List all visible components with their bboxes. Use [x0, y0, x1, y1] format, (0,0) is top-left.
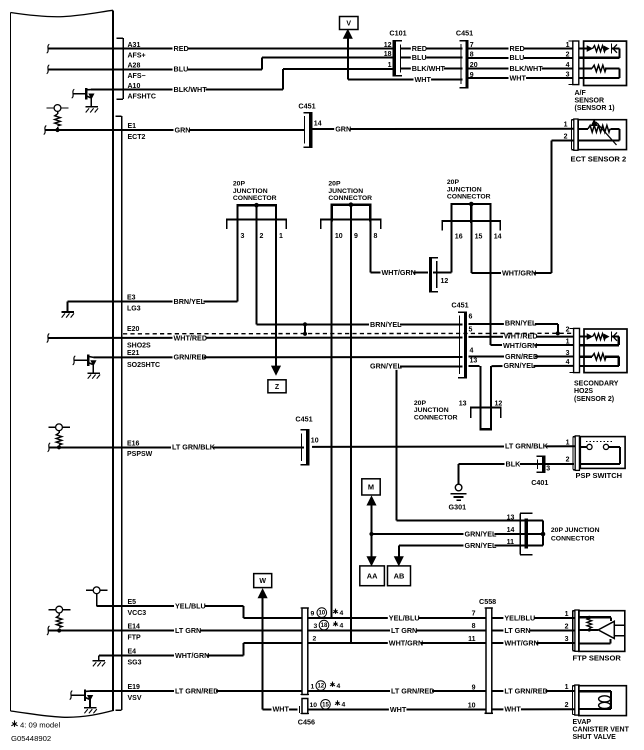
svg-text:10: 10 [318, 611, 325, 617]
wire label BLK/WHT (after C451) [509, 66, 542, 72]
wire label GRN/YEL (to C451 pin 13) [369, 364, 400, 370]
pin E14 label [128, 624, 142, 642]
page connector V box with up arrow [340, 17, 359, 39]
svg-text:BLU: BLU [174, 65, 189, 74]
svg-text:3: 3 [314, 623, 318, 630]
ECM connector A pin-group bracket [117, 38, 124, 99]
ECT sensor 2 connector bracket [571, 120, 573, 150]
svg-text:WHT: WHT [415, 75, 432, 84]
svg-text:V: V [346, 21, 351, 28]
svg-text:YEL/BLU: YEL/BLU [504, 613, 535, 622]
svg-text:1: 1 [279, 233, 283, 240]
wire label YEL/BLU (middle) [388, 616, 419, 622]
svg-text:WHT/GRN: WHT/GRN [382, 268, 416, 277]
FTP sensor body [579, 611, 625, 652]
svg-text:1: 1 [566, 339, 570, 346]
svg-text:SHUT VALVE: SHUT VALVE [573, 734, 617, 741]
svg-text:12: 12 [317, 684, 324, 690]
svg-text:20P: 20P [414, 400, 427, 407]
svg-text:12: 12 [495, 400, 503, 407]
shielding (dashed) of WHT/RED SHO2S wire [123, 332, 573, 335]
svg-text:FTP: FTP [128, 634, 142, 641]
svg-text:18: 18 [321, 623, 328, 629]
wire label WHT/RED (ECM side) [173, 336, 206, 342]
ground at AFSHTC transistor emitter [85, 107, 98, 113]
ground at VSV transistor emitter [84, 707, 97, 709]
svg-text:JUNCTION: JUNCTION [328, 188, 363, 195]
svg-text:14: 14 [494, 233, 502, 240]
svg-text:13: 13 [459, 400, 467, 407]
pin E1 label [128, 123, 146, 141]
wire label WHT (middle) [389, 707, 407, 713]
20P junction connector (BRN/YEL group) [227, 181, 287, 241]
svg-text:M: M [368, 483, 374, 492]
wire label LT GRN/BLK (switch side) [504, 444, 546, 450]
svg-text:GRN: GRN [175, 125, 191, 134]
EVAP canister vent shut valve body with solenoid [579, 686, 627, 716]
svg-text:A31: A31 [128, 42, 141, 49]
wire label WHT/GRN (ECT sensor 2 ground) [501, 271, 534, 277]
wire label GRN/YEL (pin 11) [464, 544, 495, 550]
wire GRN E1 to ECT sensor 2 pin 1 [44, 126, 575, 135]
node dot shield to BRN/YEL link top [303, 322, 307, 326]
svg-text:G05448902: G05448902 [11, 734, 51, 743]
wire BRN/YEL C451 pin 6 to shield node [469, 324, 558, 334]
svg-text:A28: A28 [128, 63, 141, 70]
A/F sensor (sensor 1) body [579, 41, 627, 85]
svg-text:GRN: GRN [335, 124, 351, 133]
svg-text:C456: C456 [298, 718, 315, 727]
svg-text:LT GRN/RED: LT GRN/RED [175, 686, 218, 695]
svg-text:3: 3 [546, 466, 550, 473]
svg-text:1: 1 [388, 62, 392, 69]
svg-text:JUNCTION: JUNCTION [447, 186, 482, 193]
svg-text:FTP SENSOR: FTP SENSOR [573, 654, 622, 663]
svg-text:1: 1 [565, 611, 569, 618]
svg-text:10: 10 [468, 702, 476, 709]
svg-text:4: 4 [340, 622, 344, 629]
wire WHT/GRN junction connector pin 14 to secondary HO2S pin 1 [491, 223, 575, 346]
wire label WHT/RED (sensor side) [503, 334, 536, 340]
wire label LT GRN (middle) [390, 628, 416, 634]
pin A31 label [128, 42, 146, 60]
wire LT GRN/RED E19 to EVAP valve pin 1 [90, 690, 576, 692]
svg-text:3: 3 [565, 636, 569, 643]
EVAP canister vent shut valve connector bracket [572, 686, 574, 715]
pin E16 label [127, 440, 153, 458]
svg-text:LG3: LG3 [127, 305, 141, 312]
svg-text:CANISTER VENT: CANISTER VENT [573, 727, 630, 734]
ECM connector E pin-group bracket [116, 116, 122, 710]
svg-text:20P: 20P [328, 181, 341, 188]
svg-text:AB: AB [394, 571, 405, 580]
svg-text:A10: A10 [128, 83, 141, 90]
svg-text:C558: C558 [479, 597, 496, 606]
wire label GRN (after C451) [334, 127, 349, 133]
wire label WHT/GRN (sensor side) [503, 641, 536, 647]
svg-text:4: 4 [566, 359, 570, 366]
svg-text:ECT SENSOR 2: ECT SENSOR 2 [571, 155, 627, 164]
wire label WHT/GRN (ECM side) [174, 653, 207, 659]
wire label RED (ECM side) [173, 47, 188, 53]
svg-text:BLK/WHT: BLK/WHT [174, 85, 208, 94]
svg-text:7: 7 [470, 42, 474, 49]
svg-text:(SENSOR 2): (SENSOR 2) [574, 396, 614, 403]
wire GRN/YEL lower junction connector pin 12 to secondary HO2S pin 4 [491, 366, 574, 407]
svg-text:LT GRN: LT GRN [391, 626, 417, 635]
SECONDARY HO2S label [574, 380, 619, 403]
svg-text:VCC3: VCC3 [128, 610, 147, 617]
svg-text:2: 2 [565, 702, 569, 709]
svg-text:10: 10 [310, 702, 318, 709]
wire WHT/GRN E4 to FTP sensor pin 3 [99, 643, 576, 656]
svg-text:AFS+: AFS+ [128, 53, 146, 60]
svg-text:SENSOR: SENSOR [575, 98, 605, 105]
svg-text:A/F: A/F [575, 90, 587, 97]
svg-text:6: 6 [469, 313, 473, 320]
C456 pin 3(18) label [314, 620, 344, 630]
wire label BLU (after C101) [411, 56, 426, 62]
svg-text:SECONDARY: SECONDARY [574, 380, 619, 387]
connector C101 [384, 29, 407, 76]
20P junction connector (GRN/YEL pins 13/12, inverted) [414, 400, 502, 430]
svg-text:SG3: SG3 [128, 659, 142, 666]
wire junction connector pin 1 to page connector Z [272, 205, 281, 374]
PSP switch pin numbers [566, 439, 570, 463]
svg-text:11: 11 [507, 539, 515, 546]
svg-text:VSV: VSV [128, 695, 142, 702]
A/F sensor label [575, 90, 615, 112]
svg-text:LT GRN: LT GRN [504, 626, 530, 635]
page connector Z box [268, 380, 286, 393]
svg-text:WHT: WHT [510, 74, 527, 83]
wire label BRN/YEL (ECM side) [173, 299, 204, 305]
secondary HO2S body [580, 329, 628, 373]
svg-text:G301: G301 [449, 503, 467, 512]
svg-text:EVAP: EVAP [573, 719, 592, 726]
svg-text:GRN/RED: GRN/RED [174, 353, 207, 362]
svg-text:ECT2: ECT2 [128, 134, 146, 141]
svg-text:WHT/GRN: WHT/GRN [389, 638, 423, 647]
transistor SO2SHTC driver inside ECM [73, 355, 96, 373]
FTP sensor pin numbers [565, 611, 569, 643]
svg-text:20: 20 [470, 62, 478, 69]
svg-text:LT GRN: LT GRN [175, 626, 201, 635]
svg-text:AA: AA [367, 571, 378, 580]
svg-text:PSP SWITCH: PSP SWITCH [576, 471, 623, 480]
svg-text:4: 4 [566, 62, 570, 69]
pin A10 label [128, 83, 156, 101]
svg-text:E3: E3 [127, 295, 136, 302]
wire label LT GRN (ECM side) [174, 628, 200, 634]
ECM/PCM module box (torn edges) [11, 10, 115, 717]
wire BLK/WHT A10 to A/F sensor pin 4 [91, 68, 574, 89]
wire junction pin 9 tap to WHT/GRN [350, 221, 352, 643]
svg-text:E19: E19 [128, 684, 141, 691]
svg-text:JUNCTION: JUNCTION [233, 188, 268, 195]
svg-text:AFSHTC: AFSHTC [128, 94, 156, 101]
svg-text:1: 1 [566, 439, 570, 446]
svg-text:20P: 20P [447, 179, 460, 186]
A/F sensor (sensor 1) connector bar [569, 41, 579, 85]
svg-text:YEL/BLU: YEL/BLU [175, 601, 206, 610]
wire GRN/YEL node to junction connector pin 14 [372, 533, 525, 535]
pin E19 label [128, 684, 142, 702]
ground at E3/LG3 inside ECM [61, 302, 74, 318]
wire label GRN/RED (sensor side) [504, 355, 535, 361]
svg-text:BLK/WHT: BLK/WHT [412, 64, 446, 73]
svg-text:20P JUNCTION: 20P JUNCTION [551, 527, 600, 534]
ground at SO2SHTC transistor emitter [87, 372, 100, 374]
wire label YEL/BLU (ECM side) [174, 604, 205, 610]
svg-text:(SENSOR 1): (SENSOR 1) [575, 105, 615, 112]
svg-text:GRN/YEL: GRN/YEL [465, 529, 498, 538]
wire label RED (after C101) [411, 47, 426, 53]
svg-text:14: 14 [314, 120, 322, 127]
wire label LT GRN/RED (ECM side) [174, 689, 216, 695]
svg-text:8: 8 [374, 233, 378, 240]
svg-text:E14: E14 [128, 624, 141, 631]
svg-text:LT GRN/RED: LT GRN/RED [391, 686, 434, 695]
svg-text:E1: E1 [128, 123, 137, 130]
internal pull-up for FTP inside ECM [49, 606, 71, 630]
svg-text:C451: C451 [451, 301, 468, 310]
svg-text:WHT: WHT [504, 705, 521, 714]
wire label WHT (after V) [414, 77, 432, 83]
svg-text:E21: E21 [127, 350, 140, 357]
svg-text:2: 2 [313, 635, 317, 642]
svg-text:Z: Z [275, 384, 280, 391]
svg-text:3: 3 [566, 350, 570, 357]
pin E5 label [128, 599, 147, 617]
svg-text:E5: E5 [128, 599, 137, 606]
transistor VSV driver inside ECM [70, 690, 93, 708]
wire label WHT (ECM side) [272, 707, 290, 713]
internal pull-up for PSPSW inside ECM [49, 424, 71, 447]
svg-text:HO2S: HO2S [574, 388, 593, 395]
svg-text:16: 16 [455, 233, 463, 240]
svg-text:18: 18 [384, 51, 392, 58]
wire label BLK/WHT (after C101) [411, 67, 444, 73]
wire GRN/YEL C451 pin 13 to junction connector pin 13 [396, 366, 524, 520]
wire label LT GRN (sensor side) [503, 628, 529, 634]
svg-text:BLU: BLU [510, 53, 525, 62]
svg-text:WHT/GRN: WHT/GRN [503, 341, 537, 350]
svg-text:7: 7 [472, 610, 476, 617]
svg-text:BLK: BLK [506, 459, 522, 468]
svg-text:2: 2 [565, 623, 569, 630]
svg-text:WHT/GRN: WHT/GRN [504, 638, 538, 647]
connector C401 [531, 456, 550, 487]
svg-text:YEL/BLU: YEL/BLU [389, 613, 420, 622]
A/F sensor pin numbers [566, 42, 570, 78]
svg-text:1: 1 [565, 684, 569, 691]
svg-text:SHO2S: SHO2S [127, 343, 151, 350]
ground at E4/SG3 inside ECM [93, 656, 106, 667]
svg-text:10: 10 [311, 438, 319, 445]
svg-text:4: 4 [340, 610, 344, 617]
connector C451 (PSP branch) [295, 415, 318, 465]
connector C456 [298, 608, 315, 727]
svg-text:1: 1 [564, 122, 568, 129]
wire label RED (after C451) [509, 47, 524, 53]
wire label BLK [505, 462, 520, 468]
wire label LT GRN/RED (middle) [390, 689, 432, 695]
svg-text:9: 9 [470, 72, 474, 79]
wire label WHT/GRN (secondary HO2S pin 1) [502, 343, 535, 349]
svg-text:CONNECTOR: CONNECTOR [551, 536, 595, 543]
wire label WHT/GRN (middle) [388, 641, 421, 647]
C456 pin 9(10) label [311, 608, 344, 618]
svg-text:LT GRN/BLK: LT GRN/BLK [172, 443, 216, 452]
svg-text:2: 2 [260, 233, 264, 240]
wire WHT from connector V to A/F sensor pin 3 [348, 36, 574, 80]
svg-text:BLU: BLU [412, 53, 427, 62]
wire label LT GRN/RED (sensor side) [503, 689, 545, 695]
svg-text:BRN/YEL: BRN/YEL [370, 320, 402, 329]
wire label GRN (ECM side) [174, 128, 189, 134]
wire junction connector pin 3 to E3 [68, 205, 238, 301]
node dot pull-up to E16 line [57, 445, 61, 449]
pin E3 label [127, 295, 141, 313]
wire BLK PSP switch pin 2 to G301 [459, 464, 574, 484]
wire label GRN/RED (ECM side) [173, 355, 204, 361]
node dot pull-up to E14 line [57, 628, 61, 632]
svg-text:BRN/YEL: BRN/YEL [505, 319, 537, 328]
PSP switch connector bracket [572, 437, 574, 470]
svg-text:9: 9 [354, 233, 358, 240]
svg-text:RED: RED [510, 44, 525, 53]
svg-text:C401: C401 [531, 478, 548, 487]
svg-text:14: 14 [507, 527, 515, 534]
pin E20 label [127, 326, 151, 350]
secondary HO2S connector bar [569, 328, 579, 372]
svg-text:15: 15 [322, 702, 329, 708]
ground G301 [449, 484, 467, 511]
node dot shield to BRN/YEL link bottom [303, 332, 307, 336]
svg-text:2: 2 [566, 457, 570, 464]
page connector AA box [360, 566, 385, 586]
internal 5V pull-up for ECT2 inside ECM [47, 105, 69, 130]
wire RED A31 to A/F sensor pin 1 [47, 44, 574, 53]
wire WHT/RED E20 to secondary HO2S pin 2 [47, 334, 574, 343]
svg-text:12: 12 [441, 278, 449, 285]
svg-text:9: 9 [472, 684, 476, 691]
wire label GRN/YEL (pin 14) [464, 532, 495, 538]
wire label BLU (ECM side) [173, 67, 188, 73]
svg-text:JUNCTION: JUNCTION [414, 407, 449, 414]
footnote *4: 09 model [11, 720, 60, 729]
node dot shield drain at sensor end [556, 331, 560, 335]
secondary HO2S pin numbers [566, 327, 570, 366]
wire WHT/GRN from junction connector pin 15 to ECT sensor 2 pin 2 [471, 140, 573, 273]
svg-text:4: 09 model: 4: 09 model [20, 720, 60, 729]
svg-text:10: 10 [335, 233, 343, 240]
svg-text:1: 1 [311, 683, 315, 690]
svg-text:E16: E16 [127, 440, 140, 447]
connector C451 (A/F sensor feed) [456, 29, 478, 88]
svg-text:4: 4 [337, 683, 341, 690]
wire YEL/BLU E5 to FTP sensor pin 1 [97, 606, 576, 618]
svg-text:BRN/YEL: BRN/YEL [174, 297, 206, 306]
svg-text:2: 2 [566, 51, 570, 58]
svg-text:WHT/GRN: WHT/GRN [502, 268, 536, 277]
wire LT GRN E14 to FTP sensor pin 2 [47, 626, 576, 635]
svg-text:20P: 20P [233, 181, 246, 188]
wire BLU A28 to A/F sensor pin 2 [47, 58, 574, 74]
svg-text:W: W [259, 578, 266, 585]
pin E21 label [127, 350, 160, 369]
PSP switch body [580, 437, 625, 469]
wire GRN/YEL junction pin 11 to AB [395, 546, 524, 566]
svg-text:E4: E4 [128, 649, 137, 656]
ECT sensor 2 body with thermistor [578, 120, 626, 150]
wire LT GRN/BLK E16 to PSP switch pin 1 [48, 443, 576, 452]
ECT sensor 2 pin numbers [564, 122, 568, 141]
20P junction connector (vertical, pins 13/14/11) [507, 513, 600, 554]
wire label LT GRN/BLK (ECM side) [171, 445, 213, 451]
svg-text:13: 13 [507, 514, 515, 521]
svg-text:4: 4 [342, 702, 346, 709]
svg-text:CONNECTOR: CONNECTOR [233, 195, 277, 202]
wire GRN/YEL M to AA with arrows [367, 497, 376, 566]
svg-text:WHT: WHT [390, 705, 407, 714]
connector C451 (secondary HO2S branch) [451, 301, 477, 378]
svg-text:AFS−: AFS− [128, 73, 146, 80]
svg-text:4: 4 [470, 347, 474, 354]
page connector AB box [388, 566, 411, 586]
wire WHT/GRN junction pin 8 through C451 pin 12 to junction pin 16 [370, 221, 451, 273]
svg-text:RED: RED [412, 44, 427, 53]
connector C451 pin 12 bracket [429, 258, 448, 292]
wire label WHT/GRN (junction link) [381, 271, 414, 277]
wire label WHT (sensor side) [503, 707, 521, 713]
EVAP valve pin numbers [565, 684, 569, 709]
pin E4 label [128, 649, 142, 667]
wire label BRN/YEL (sensor side) [504, 321, 535, 327]
svg-text:3: 3 [241, 233, 245, 240]
wire WHT from W to C456 pin 10 [263, 596, 576, 713]
svg-text:12: 12 [384, 42, 392, 49]
wire GRN/YEL C451 pin 13 branch to lower junction connector [469, 366, 481, 407]
wire label BLU (after C451) [509, 56, 524, 62]
wire label WHT (after C451) [509, 76, 527, 82]
internal supply node for VCC3 inside ECM [86, 587, 108, 606]
C456 pin 10(15) label [310, 700, 346, 710]
svg-text:C451: C451 [295, 415, 312, 424]
page connector W box with up arrow [254, 574, 272, 598]
wire label YEL/BLU (sensor side) [503, 616, 534, 622]
20P junction connector (WHT/GRN group) [442, 179, 501, 240]
svg-text:CONNECTOR: CONNECTOR [328, 195, 372, 202]
svg-text:LT GRN/BLK: LT GRN/BLK [505, 442, 549, 451]
node dot pull-up to E1 line [55, 128, 59, 132]
svg-text:BLK/WHT: BLK/WHT [510, 64, 544, 73]
svg-text:CONNECTOR: CONNECTOR [414, 414, 458, 421]
svg-text:WHT: WHT [273, 705, 290, 714]
svg-text:11: 11 [468, 636, 476, 643]
node dot on M-AA wire [369, 532, 373, 536]
svg-text:GRN/YEL: GRN/YEL [465, 541, 498, 550]
svg-text:1: 1 [566, 42, 570, 49]
svg-text:E20: E20 [127, 326, 140, 333]
svg-text:C451: C451 [456, 29, 473, 38]
svg-text:C101: C101 [389, 29, 406, 38]
connector C558 [479, 597, 496, 713]
svg-text:3: 3 [566, 72, 570, 79]
FTP sensor connector bracket [572, 611, 574, 651]
svg-text:CONNECTOR: CONNECTOR [447, 194, 491, 201]
